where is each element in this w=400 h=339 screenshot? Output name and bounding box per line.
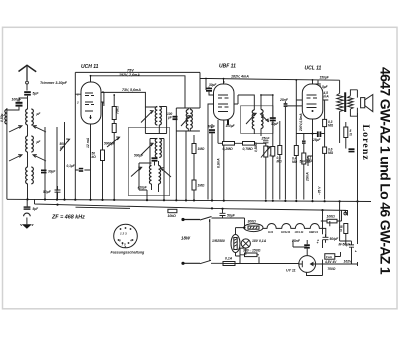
wire L4 bottom [27, 184, 29, 199]
svg-text:±10pF: ±10pF [138, 185, 148, 189]
cap 30uF at L4 [41, 170, 56, 174]
resistor 0,4M [292, 80, 298, 200]
heater bumps [263, 223, 326, 237]
coil L1 0,5u [5, 110, 7, 124]
svg-text:0,50µ: 0,50µ [0, 114, 4, 122]
svg-text:10kΩ: 10kΩ [168, 214, 177, 218]
cap 25uF [296, 131, 324, 142]
Fsle box [324, 254, 352, 271]
osc trim arrows [131, 167, 171, 177]
resistor 50k cathode [101, 150, 105, 161]
socket circle [114, 224, 138, 249]
resistor 0,3M [323, 100, 334, 134]
svg-text:0,1A: 0,1A [225, 257, 233, 261]
B+ top bus 75V [75, 72, 339, 108]
svg-text:182V, 4mA: 182V, 4mA [231, 75, 249, 79]
50uF cap right [220, 209, 236, 218]
50uF cap near bus [43, 186, 61, 199]
det transformer wires [238, 95, 273, 136]
cap 100uF at UBF [226, 120, 236, 128]
svg-text:MΩ: MΩ [328, 151, 334, 155]
svg-text:Ω: Ω [349, 133, 353, 137]
svg-text:Trimmer 3-30pF: Trimmer 3-30pF [40, 81, 68, 85]
wire left branch [7, 98, 28, 199]
svg-text:25nF: 25nF [261, 136, 271, 140]
capacitor 5uF antenna [24, 91, 39, 95]
speaker [361, 95, 373, 112]
svg-text:MΩ: MΩ [292, 160, 298, 164]
tube UCH11 pin wires [75, 92, 103, 199]
cap 5nF [300, 156, 313, 166]
svg-text:75V: 75V [127, 69, 134, 73]
svg-text:192V, 2,6mA: 192V, 2,6mA [119, 73, 140, 77]
capacitor 100uF [12, 98, 23, 107]
svg-text:8,3mA: 8,3mA [217, 158, 221, 168]
tube UBF11 [214, 80, 235, 120]
5uF cap [316, 85, 329, 93]
svg-text:30µF: 30µF [48, 170, 56, 174]
svg-text:Fassungsschaltung: Fassungsschaltung [111, 251, 146, 255]
resistor 10k [168, 209, 177, 218]
det trafo trim arrows [246, 113, 269, 124]
svg-text:1MΩ: 1MΩ [198, 147, 205, 151]
fuse 0,1A [223, 257, 235, 266]
IF1 primary top/bottom bars [145, 107, 166, 134]
svg-text:UCH11: UCH11 [281, 230, 291, 234]
variable cap arrows row1 [9, 125, 46, 136]
UCL pin wires [296, 80, 328, 199]
resistor far col 0,1M [296, 134, 304, 200]
svg-text:0,7MΩ: 0,7MΩ [243, 147, 254, 151]
IF1 trim arrow [141, 111, 153, 123]
screen bus 192V [91, 76, 186, 108]
cap at sec [349, 148, 355, 152]
svg-text:18V 0,1A: 18V 0,1A [252, 239, 267, 243]
resistor right of pot [271, 127, 275, 200]
IF2 windings [186, 110, 192, 129]
resistor 0,2M horizontal [223, 142, 235, 152]
resistor 0,7M horizontal [243, 142, 255, 152]
svg-text:70kΩ: 70kΩ [116, 106, 120, 114]
svg-text:4,5V 4V: 4,5V 4V [324, 260, 337, 264]
svg-text:0,2MΩ: 0,2MΩ [223, 147, 234, 151]
svg-text:kΩ: kΩ [92, 155, 97, 159]
svg-text:500µF: 500µF [134, 153, 144, 157]
IF1 left vertical [144, 107, 146, 134]
anode line 73V [103, 92, 145, 107]
svg-text:18W: 18W [181, 236, 191, 241]
rectifier UY11 [286, 256, 316, 273]
svg-text:4647 GW-AZ 1 und Lo 46 GW-AZ 1: 4647 GW-AZ 1 und Lo 46 GW-AZ 1 [378, 67, 394, 275]
resistor 5k sec [344, 122, 353, 149]
svg-text:U11: U11 [268, 230, 273, 234]
svg-text:+: + [317, 239, 319, 243]
resistor 0,1M [277, 121, 283, 200]
padder cap 500pF with arrow [60, 122, 70, 199]
cap 50uF psu [317, 234, 339, 242]
cap 500uF in can [134, 153, 158, 161]
svg-text:25µF: 25µF [312, 138, 321, 142]
output transformer primary [337, 93, 343, 111]
resistor 1M lower [192, 180, 205, 200]
resistor 100ohm [321, 215, 342, 223]
cap 30uF at UBF [206, 83, 219, 95]
mains plug prong 1 [181, 218, 200, 221]
svg-text:1MΩ: 1MΩ [198, 184, 205, 188]
svg-text:mA: mA [324, 94, 330, 98]
variable cap arrows row2 [9, 152, 46, 167]
dial lamp [241, 239, 266, 248]
IF transformer 1 box [129, 127, 170, 195]
cap 50uF at UBF cathode [208, 124, 216, 200]
cap 30uF det [270, 95, 280, 127]
svg-text:M-50µF: M-50µF [339, 242, 352, 246]
svg-text:Ω: Ω [339, 229, 343, 233]
volume pot 0,5M [254, 142, 274, 200]
vertical x180 / IF2 left [175, 108, 177, 200]
svg-text:UCL 11: UCL 11 [305, 66, 322, 72]
vertical wire x75.3 input box right [74, 72, 76, 199]
svg-text:25nF: 25nF [291, 239, 301, 243]
svg-text:UCL11: UCL11 [295, 230, 304, 234]
svg-text:0,5MΩ: 0,5MΩ [254, 142, 258, 152]
capacitor 0,1uF cathode bypass [67, 164, 91, 172]
tube UCH11 [76, 82, 104, 124]
svg-text:162V: 162V [344, 260, 353, 264]
svg-text:73V, 5,6mA: 73V, 5,6mA [122, 88, 141, 92]
cap 5000pF with arrow [107, 137, 120, 147]
IF2 trim arrows [181, 116, 191, 126]
bottom bus 2 [35, 200, 347, 211]
top bus junction dots [90, 75, 314, 96]
vertical wire x57 [56, 127, 58, 199]
svg-text:UBF11: UBF11 [309, 230, 318, 234]
antenna [19, 65, 37, 90]
junction dots bus [26, 198, 358, 211]
vertical x103.9 top [103, 92, 105, 106]
resistor 35ohm [339, 224, 348, 242]
ground symbol [20, 213, 33, 229]
mains switch 2 [200, 260, 223, 263]
svg-text:5000µF: 5000µF [104, 142, 116, 146]
svg-text:ZF = 468 kHz: ZF = 468 kHz [51, 215, 85, 221]
ballast 300ohm oval [236, 220, 264, 235]
svg-text:150pF: 150pF [320, 76, 330, 80]
svg-text:UY 11: UY 11 [286, 269, 296, 273]
jack bracket [342, 211, 348, 222]
switch link vertical [209, 219, 211, 261]
svg-text:50/µF: 50/µF [330, 237, 340, 241]
psu wires right [307, 113, 358, 276]
IF1 primary windings [155, 107, 161, 126]
svg-text:30µF: 30µF [271, 122, 279, 126]
cap 25nF [261, 136, 271, 146]
svg-text:Lorenz: Lorenz [360, 125, 371, 161]
svg-text:1 2 3: 1 2 3 [120, 232, 127, 236]
svg-text:5µF: 5µF [33, 92, 40, 96]
vertical from bus to UBF [206, 78, 224, 90]
resistor 380-150 [240, 249, 261, 257]
coil L4 [26, 167, 34, 184]
oscillator coil L3 [26, 136, 34, 152]
IF1 secondary windings [155, 139, 161, 158]
urdox 1/R2580 [212, 235, 240, 257]
svg-text:UCH 11: UCH 11 [81, 64, 99, 70]
svg-text:12 mA: 12 mA [86, 137, 90, 148]
svg-text:50µF: 50µF [43, 190, 52, 194]
resistor 1M right [192, 144, 205, 181]
antenna coil L2 [26, 109, 34, 125]
vertical wire x45 [44, 127, 46, 199]
det transformer box [241, 106, 274, 134]
mains plug prong 2 [181, 262, 200, 265]
det transformer windings [252, 110, 263, 130]
resistor below 70k [112, 124, 116, 200]
IF1 sec trim arrow [141, 143, 153, 155]
resistor 70k [112, 95, 119, 124]
svg-text:200V,4,5mA: 200V,4,5mA [299, 113, 303, 132]
svg-text:2: 2 [76, 101, 79, 105]
svg-text:UBF 11: UBF 11 [219, 64, 236, 70]
svg-text:20mA: 20mA [306, 172, 310, 182]
svg-text:1/R2580: 1/R2580 [212, 239, 225, 243]
osc coil windings [149, 166, 160, 184]
IF transformer 2 top/bottom bars [176, 108, 200, 200]
svg-text:–76 V: –76 V [318, 186, 322, 195]
ground cap 5uF [24, 200, 40, 212]
150pF cap [315, 76, 330, 89]
svg-text:0,1µF: 0,1µF [67, 164, 76, 168]
svg-text:700Ω: 700Ω [328, 267, 336, 271]
svg-text:4: 4 [129, 239, 132, 243]
resistor 0,6M [323, 134, 334, 200]
UBF pin wires [208, 104, 238, 200]
svg-text:50µF: 50µF [227, 214, 236, 218]
svg-text:Fsle: Fsle [326, 255, 332, 259]
tube UCL11 [302, 84, 323, 119]
wire antenna down [27, 96, 29, 109]
output transformer core [344, 92, 346, 112]
cap M-50uF [339, 242, 357, 254]
svg-text:300Ω: 300Ω [248, 220, 257, 224]
svg-text:100Ω: 100Ω [327, 215, 336, 219]
svg-text:+: + [355, 250, 357, 254]
cap 25nF psu [291, 239, 319, 249]
bottom bus main [7, 199, 371, 201]
output transformer secondary [348, 96, 354, 109]
transformer wires [340, 80, 358, 143]
svg-text:MΩ: MΩ [328, 123, 334, 127]
osc feedback loop wire [139, 162, 155, 190]
mains switch 1 [200, 217, 245, 227]
IF2 cap 100uF [167, 112, 178, 120]
svg-text:25nF: 25nF [279, 98, 289, 102]
